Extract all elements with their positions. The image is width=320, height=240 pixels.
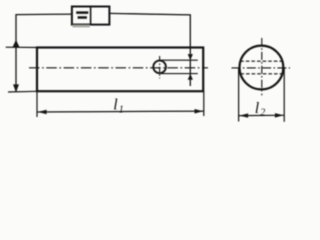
hole H1 vertical centerline — [159, 56, 161, 79]
l1 left arrow — [38, 110, 47, 115]
parallelism symbol top bar — [76, 11, 88, 14]
hole H1 circle (side view) — [153, 61, 166, 74]
l1 dimension line — [38, 110, 204, 113]
hole hidden line upper — [240, 60, 282, 62]
hole hidden line lower — [240, 73, 282, 75]
cylinder axis centerline — [29, 67, 208, 69]
svg-text:l: l — [113, 97, 118, 114]
end view horizontal centerline — [232, 67, 291, 69]
end view circle — [240, 46, 284, 90]
frame bottom scan smudge — [73, 25, 90, 27]
diameter dimension bottom arrow — [13, 84, 19, 92]
tolerance frame divider — [90, 7, 92, 25]
svg-text:2: 2 — [260, 107, 265, 118]
end view vertical centerline — [261, 38, 263, 95]
label l2 — [255, 100, 265, 118]
cylinder body outline (side view) — [37, 48, 203, 92]
svg-text:l: l — [255, 100, 260, 117]
hole dimension top arrow — [188, 54, 193, 60]
parallelism symbol bottom bar — [78, 16, 87, 19]
l1 left extension line — [36, 91, 38, 117]
hole bottom tangent extension line — [160, 73, 198, 75]
l2 left arrow — [239, 113, 248, 117]
l1 right arrow — [195, 109, 204, 114]
diameter dimension top arrow — [13, 40, 20, 47]
diameter bottom extension line — [8, 90, 37, 93]
l2 right extension line — [283, 68, 285, 122]
left leader wire from frame — [16, 14, 72, 92]
diameter top extension line — [6, 46, 37, 48]
hole dimension bottom arrow — [188, 74, 193, 80]
l1 right extension line — [203, 91, 205, 116]
hole top tangent extension line — [160, 59, 198, 61]
l2 dimension line — [239, 114, 284, 116]
label l1 — [113, 97, 124, 116]
l2 left extension line — [238, 68, 240, 122]
tolerance frame F1 box — [72, 7, 110, 25]
right leader wire from frame — [109, 13, 190, 86]
svg-text:1: 1 — [119, 104, 124, 115]
l2 right arrow — [275, 113, 284, 118]
